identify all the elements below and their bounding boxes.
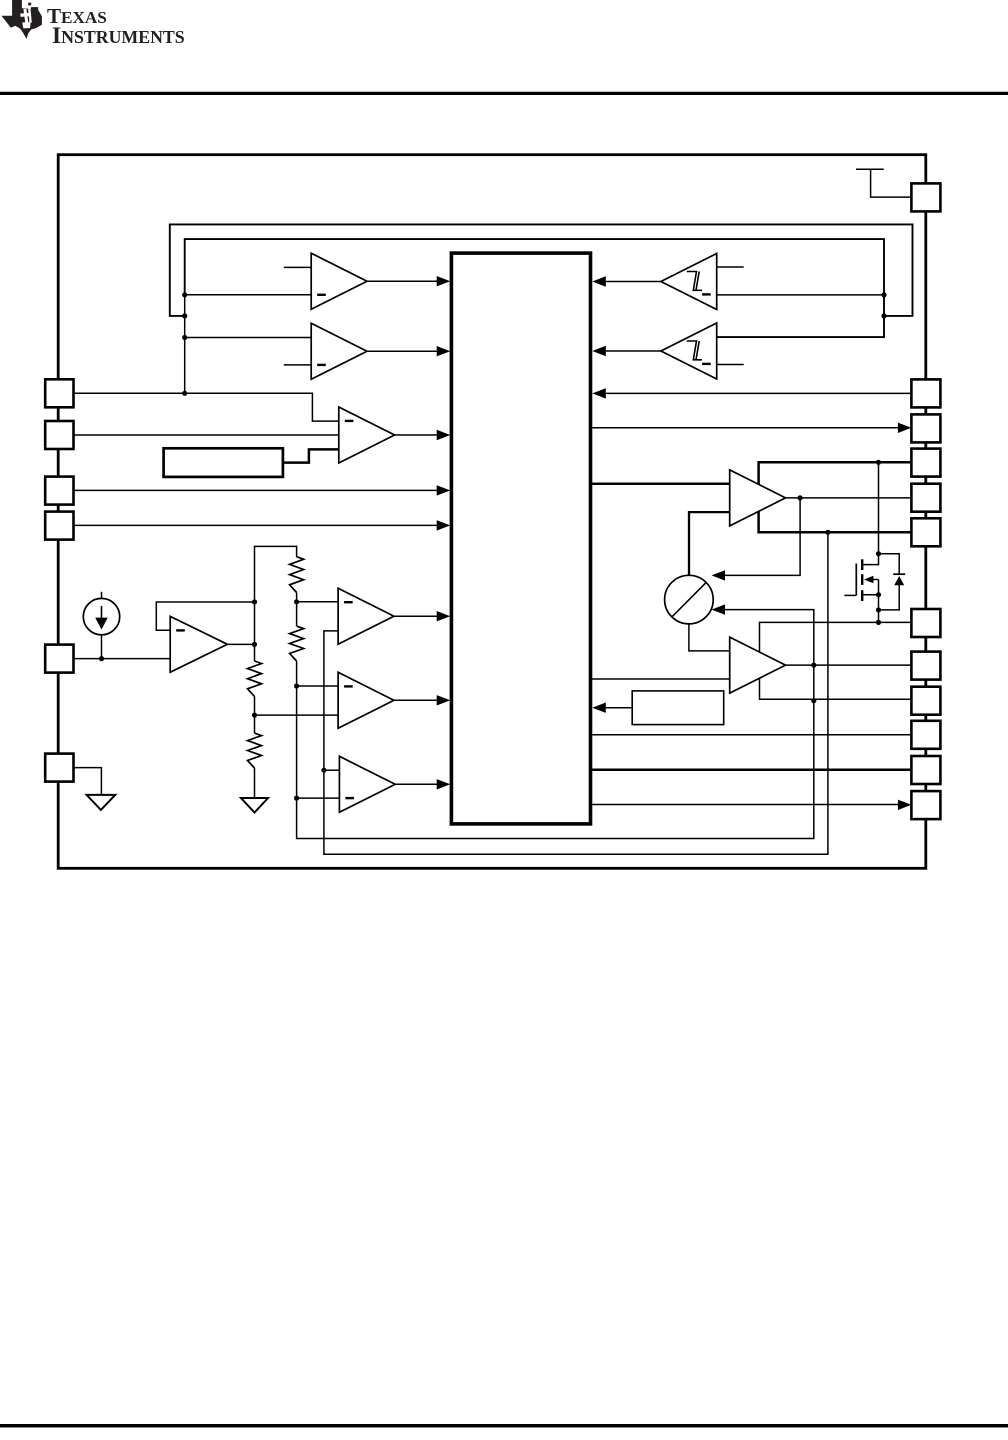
pin P3 xyxy=(45,477,73,505)
wire: logic to pin I xyxy=(591,734,912,736)
wire: pin P6 to ground xyxy=(74,768,101,795)
pin G xyxy=(911,652,940,680)
arrow: pin P3 wire into logic xyxy=(437,485,451,495)
hysteresis comparator 1 glyph xyxy=(687,272,702,291)
charge pump circle xyxy=(665,575,714,624)
pin K xyxy=(911,791,940,819)
junction: feedback / hysteresis 1 input xyxy=(881,292,886,297)
junction: pin C / FET drain xyxy=(876,460,881,465)
arrow: into pin B xyxy=(898,423,912,433)
hysteresis comparator 1 output xyxy=(606,281,661,283)
wire: chain bridge top xyxy=(255,546,297,602)
hysteresis comparator 2 body xyxy=(661,323,717,379)
wire: pin P5 to error amp noninverting xyxy=(74,658,170,660)
arrow: comparator C output into logic xyxy=(437,430,451,440)
gate driver 2 body xyxy=(730,637,786,693)
wire: comparator 3 noninverting stub xyxy=(324,769,340,771)
junction: chain2 tap 1 xyxy=(294,599,299,604)
pin P1 xyxy=(45,379,73,407)
wire: error amp output to resistor chain xyxy=(227,643,254,645)
ground (pin P6) xyxy=(87,795,116,810)
wire: deglitch block to comparator C lower input xyxy=(283,449,339,462)
wire: gate driver 1 lower input from charge pump xyxy=(689,512,730,575)
junction: chain2 tap 3 xyxy=(294,796,299,801)
comparator 1 body xyxy=(338,588,394,644)
pin C xyxy=(911,449,940,477)
junction: bus / comparator B input xyxy=(182,335,187,340)
wire: comparator 2 inverting input xyxy=(255,714,339,716)
hysteresis comparator 2 output xyxy=(606,350,661,352)
junction: FET source / pin F wire xyxy=(876,620,881,625)
pin I xyxy=(911,721,940,749)
arrow: into charge pump lower xyxy=(712,604,726,614)
gate driver 1 body xyxy=(730,470,786,526)
comparator C minus xyxy=(345,420,354,422)
wire: chain2 lower run to gate-node route xyxy=(297,610,814,839)
junction: FET source / diode return xyxy=(876,607,881,612)
junction: chain1 / error amp output xyxy=(252,642,257,647)
UVLO block xyxy=(632,691,724,725)
junction: feedback loops xyxy=(881,313,886,318)
logic block U-CONTROL xyxy=(451,253,590,824)
chip outer boundary xyxy=(58,155,926,869)
arrow: comparator 2 output into logic xyxy=(437,695,451,705)
comparator 3 body xyxy=(339,756,395,812)
error amp body xyxy=(170,616,227,672)
arrow: comparator 1 output into logic xyxy=(437,611,451,621)
pin D xyxy=(911,484,940,512)
comparator C output xyxy=(395,434,437,436)
wire: pin C node to FET drain xyxy=(862,462,878,564)
wire: pin P1 to comparator C noninverting xyxy=(74,393,339,421)
hysteresis comparator 1 minus xyxy=(702,293,711,295)
wire: logic to pin B xyxy=(591,427,899,429)
wire: current source to pin P5 node xyxy=(101,635,103,659)
junction: comparator 3 noninverting xyxy=(321,768,326,773)
pin F xyxy=(911,609,940,637)
pin P2 xyxy=(45,421,73,449)
wire: gate driver 1 output to charge pump sense xyxy=(725,498,800,576)
junction: chain1 / comparator 2 input xyxy=(252,713,257,718)
svg-text:INSTRUMENTS: INSTRUMENTS xyxy=(52,23,185,49)
junction: gate driver 2 output xyxy=(811,663,816,668)
wire: comparator 2 noninverting input xyxy=(297,685,339,687)
comparator B body xyxy=(311,323,367,379)
comparator 2 body xyxy=(338,672,394,728)
comparator A body xyxy=(311,253,367,309)
wire: pin A into logic xyxy=(606,392,912,394)
arrow: comparator 3 output into logic xyxy=(437,779,451,789)
arrow: comparator A output into logic xyxy=(437,276,451,286)
arrow: into charge pump upper xyxy=(712,570,726,580)
wire: feedback net inner loop (top) xyxy=(185,239,884,337)
arrow: hysteresis comparator 2 into logic xyxy=(592,346,606,356)
junction: gate driver 1 output xyxy=(798,495,803,500)
current source arrow xyxy=(101,606,103,620)
wire: error amp inverting feedback xyxy=(156,602,254,630)
resistor R3 xyxy=(290,557,304,593)
resistor R1 xyxy=(248,661,262,696)
arrow: pin P4 wire into logic xyxy=(437,520,451,530)
wire: comparator 1 noninverting input xyxy=(297,601,339,603)
transistor Q1 internal FET xyxy=(844,559,878,622)
pin P5 xyxy=(45,645,73,673)
wire: charge pump to gate driver 2 upper input xyxy=(689,624,730,651)
arrow: UVLO wire into logic xyxy=(592,703,606,713)
wire: UVLO block into logic xyxy=(606,707,632,709)
hysteresis comparator 2 glyph xyxy=(687,341,702,360)
header rule xyxy=(0,92,1008,95)
comparator 2 minus xyxy=(344,685,353,687)
wire: comparator B noninverting input xyxy=(185,337,312,339)
wire: pin P3 into logic xyxy=(74,489,438,491)
comparator 1 output xyxy=(394,615,437,617)
current source circle xyxy=(83,598,119,634)
wire: chain1 to ground xyxy=(254,768,256,798)
wire: left reference bus vertical xyxy=(184,295,186,394)
junction: bus / comparator A input xyxy=(182,292,187,297)
wire: comparator 3 inverting input xyxy=(297,797,340,799)
junction: FET drain / diode xyxy=(876,551,881,556)
comparator A output xyxy=(367,280,437,282)
wire: comparator A reference stub xyxy=(284,266,311,268)
arrow: comparator B output into logic xyxy=(437,346,451,356)
wire: hysteresis comparator 2 reference stub xyxy=(717,364,744,366)
junction: pin E wire branch xyxy=(825,530,830,535)
hysteresis comparator 2 minus xyxy=(702,363,711,365)
wire: comparator A inverting input xyxy=(185,294,312,296)
wire: comparator B reference stub xyxy=(284,364,311,366)
comparator B output xyxy=(367,350,437,352)
ground (resistor chain) xyxy=(241,798,268,813)
comparator C body xyxy=(339,407,395,463)
wire: pin F net through gate driver 2 to pin H xyxy=(760,622,912,699)
wire: logic to gate driver 2 lower input xyxy=(591,678,730,680)
pin E xyxy=(911,518,940,546)
wire: pin C / gate driver 1 enable loop to pin E xyxy=(759,462,912,532)
pin B xyxy=(911,414,940,442)
junction: FET source xyxy=(876,592,881,597)
wire: chain1 mid segment xyxy=(254,696,256,733)
wire: gate driver 2 output to pin G xyxy=(786,664,912,666)
pin TOP xyxy=(911,183,940,211)
wire: hysteresis comparator 1 reference stub xyxy=(717,266,744,268)
comparator B minus xyxy=(317,364,326,366)
arrow: pin A wire into logic xyxy=(592,388,606,398)
error amp minus xyxy=(176,629,185,631)
wire: chain1 upper segment xyxy=(254,602,256,661)
wire: pin P2 to comparator C middle input xyxy=(74,434,339,436)
comparator 2 output xyxy=(394,699,437,701)
junction: chain2 tap 2 xyxy=(294,683,299,688)
wire: comparator 1 inverting net to pin E net xyxy=(324,532,828,854)
wire: chain2 segment R3-R4 xyxy=(296,593,298,627)
pin H xyxy=(911,687,940,715)
hysteresis comparator 1 body xyxy=(661,254,717,310)
junction: pin H wire branch xyxy=(811,698,816,703)
wire: logic to pin J xyxy=(591,768,912,771)
pin P4 xyxy=(45,512,73,540)
arrow: into pin K xyxy=(898,800,912,810)
wire: hysteresis comparator 1 inverting xyxy=(717,294,884,296)
body diode D1 xyxy=(879,554,906,610)
junction: bus / outer feedback xyxy=(182,313,187,318)
wire: logic to gate driver 1 upper input xyxy=(591,482,730,485)
wire: logic to pin K xyxy=(591,804,899,806)
pin A xyxy=(911,379,940,407)
resistor R2 xyxy=(248,733,262,768)
wire: top tee symbol xyxy=(856,169,911,197)
comparator 3 output xyxy=(395,783,437,785)
comparator 3 minus xyxy=(345,797,354,799)
junction: bus / pin P1 wire xyxy=(182,391,187,396)
deglitch block xyxy=(164,448,283,477)
wire: current source top stub xyxy=(101,592,103,600)
TI logo Texas map mark xyxy=(1,0,42,39)
pin J xyxy=(911,756,940,784)
comparator 1 minus xyxy=(344,601,353,603)
footer rule xyxy=(0,1424,1008,1428)
junction: current source / pin P5 xyxy=(99,656,104,661)
wire: gate driver 1 output to pin D xyxy=(786,497,912,499)
resistor R4 xyxy=(290,626,304,661)
TI logo wordmark TEXAS INSTRUMENTS xyxy=(47,4,185,49)
arrow: hysteresis comparator 1 into logic xyxy=(592,276,606,286)
wire: pin P4 into logic xyxy=(74,524,438,526)
comparator A minus xyxy=(317,294,326,296)
wire: feedback net outer loop (top) xyxy=(170,224,913,316)
junction: chain1 / error amp feedback xyxy=(252,599,257,604)
pin P6 xyxy=(45,754,73,782)
